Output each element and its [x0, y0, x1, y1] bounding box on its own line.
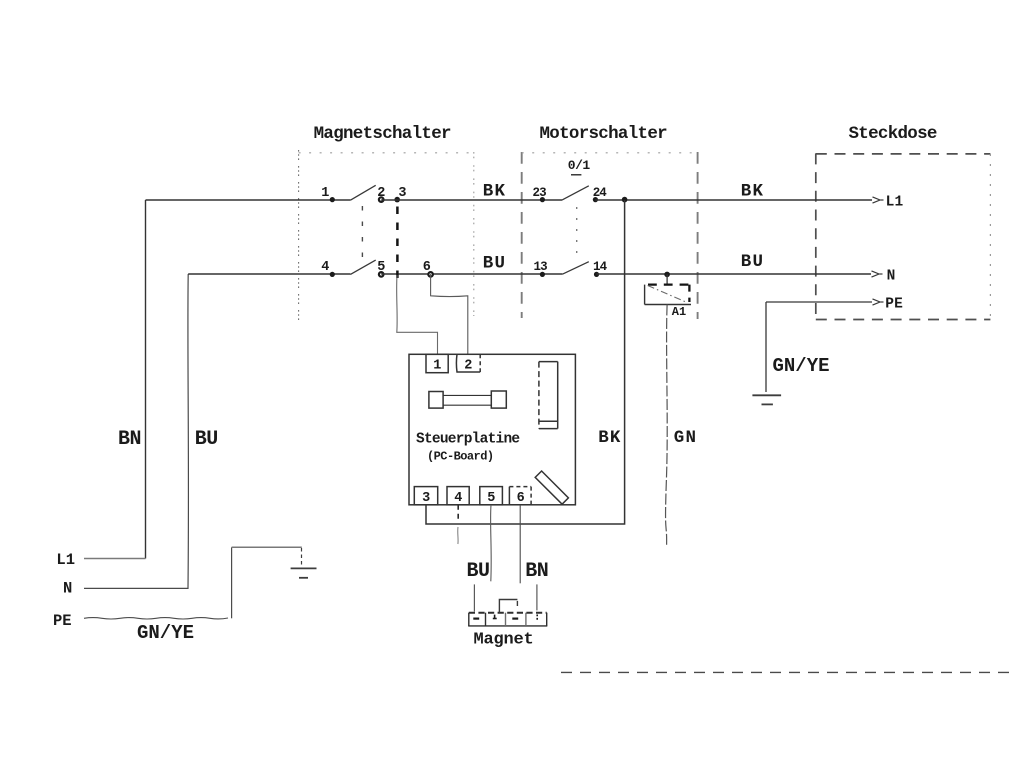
- wire BN PCB pin 6 to magnet: [519, 505, 521, 584]
- node junction 24: [622, 197, 628, 203]
- node 6: [428, 272, 433, 277]
- svg-text:Steckdose: Steckdose: [849, 124, 937, 144]
- resistor R1 vertical: [539, 362, 558, 429]
- node contact 14: [594, 272, 599, 277]
- svg-text:BN: BN: [525, 560, 548, 583]
- svg-text:(PC-Board): (PC-Board): [427, 449, 494, 463]
- ground left: [291, 548, 317, 578]
- wire node 6 to PCB pin 2: [431, 274, 468, 354]
- svg-text:Magnet: Magnet: [474, 631, 534, 650]
- wire BU between boxes: [381, 273, 562, 275]
- svg-text:2: 2: [464, 359, 472, 374]
- svg-text:1: 1: [321, 186, 329, 201]
- svg-text:GN/YE: GN/YE: [773, 355, 830, 377]
- terminal marks X1: [473, 615, 537, 620]
- svg-text:Steuerplatine: Steuerplatine: [416, 431, 519, 447]
- mechanical link S1-S2: [361, 206, 363, 266]
- switch S4 blade contacts 13-14: [562, 262, 588, 275]
- svg-text:N: N: [887, 269, 896, 285]
- enclosure Steckdose dashed box: [816, 153, 991, 319]
- svg-text:4: 4: [454, 491, 462, 506]
- fuse F1: [429, 391, 506, 408]
- wire BK top rail (Magnetschalter section): [146, 199, 351, 201]
- wire BU to socket: [597, 273, 872, 275]
- svg-text:2: 2: [377, 186, 385, 201]
- arrow to socket PE: [873, 299, 884, 305]
- svg-text:BU: BU: [467, 560, 490, 583]
- svg-text:1: 1: [433, 359, 441, 374]
- svg-text:13: 13: [534, 260, 548, 274]
- mechanical link S3-S4: [576, 207, 578, 258]
- dashed wire node 3 down: [396, 207, 399, 279]
- wire junction to relay A1: [666, 274, 668, 284]
- switch S2 blade contacts 4-5: [350, 260, 375, 274]
- svg-text:24: 24: [593, 186, 608, 200]
- pin 5 PCB: [480, 487, 503, 505]
- node contact 5: [379, 272, 384, 277]
- svg-text:PE: PE: [885, 297, 903, 313]
- svg-text:5: 5: [487, 491, 495, 506]
- node contact 24: [593, 197, 598, 202]
- svg-text:N: N: [63, 580, 72, 598]
- pin 3 PCB: [414, 487, 437, 505]
- pin 2 PCB: [456, 354, 480, 372]
- relay coil A1: [645, 285, 691, 305]
- separator dashed line bottom: [561, 671, 1017, 673]
- svg-text:4: 4: [321, 260, 329, 275]
- svg-text:6: 6: [517, 491, 525, 506]
- wire GN from relay A1 down: [666, 305, 668, 545]
- svg-text:Motorschalter: Motorschalter: [540, 124, 668, 144]
- arrow to socket L1: [873, 197, 884, 203]
- wire GN/YE right down: [765, 302, 767, 392]
- svg-text:A1: A1: [672, 305, 686, 319]
- svg-text:BN: BN: [118, 428, 141, 451]
- wire PE GN/YE to left ground: [84, 618, 228, 619]
- svg-text:BU: BU: [195, 428, 218, 451]
- wire BN vertical (L1 feed to contact 1): [145, 200, 147, 559]
- wire node 3 to PCB pin 1: [397, 275, 438, 354]
- svg-text:3: 3: [398, 186, 406, 201]
- wire PCB pin 4 dashed stub: [457, 505, 459, 521]
- pin 6 PCB: [509, 487, 531, 505]
- svg-text:14: 14: [593, 260, 608, 274]
- pin 4 PCB: [447, 487, 469, 505]
- arrow to socket N: [872, 271, 883, 277]
- svg-text:23: 23: [533, 186, 547, 200]
- svg-text:BK: BK: [483, 182, 506, 202]
- node contact 4: [330, 272, 335, 277]
- svg-text:BU: BU: [741, 252, 764, 272]
- switch S3 blade contacts 23-24: [562, 186, 588, 200]
- wire BK junction down to PCB pin 3: [426, 200, 625, 524]
- svg-text:PE: PE: [53, 612, 72, 630]
- svg-text:BK: BK: [741, 182, 764, 202]
- diode D1 diagonal: [535, 471, 568, 504]
- enclosure Magnetschalter dashed box: [299, 150, 474, 322]
- node junction A1: [664, 272, 670, 278]
- wire BU vertical (N feed to contact 4): [84, 274, 188, 588]
- wire BU rail (Magnetschalter section): [188, 273, 350, 275]
- svg-text:L1: L1: [56, 551, 75, 569]
- wire BK to socket with junction: [595, 199, 872, 201]
- connector X1 Magnet terminal strip: [468, 613, 547, 626]
- node contact 2: [379, 197, 384, 202]
- svg-text:BU: BU: [483, 254, 506, 274]
- svg-text:BK: BK: [598, 428, 621, 448]
- wire stub into magnet terminal 1: [473, 584, 475, 611]
- wire stub into magnet terminal 4: [536, 584, 538, 610]
- ground right: [752, 395, 781, 404]
- enclosure Motorschalter dashed box: [522, 152, 698, 319]
- jumper bridge on X1: [499, 600, 517, 613]
- svg-text:Magnetschalter: Magnetschalter: [314, 124, 451, 144]
- node contact 13: [540, 272, 545, 277]
- svg-text:GN/YE: GN/YE: [137, 622, 194, 644]
- svg-text:6: 6: [423, 260, 431, 275]
- wire BU PCB pin 5 to magnet: [490, 505, 493, 582]
- node contact 1: [330, 197, 335, 202]
- wire PE to socket: [766, 301, 872, 303]
- svg-text:3: 3: [422, 491, 430, 506]
- svg-text:5: 5: [377, 260, 385, 275]
- pin 1 PCB: [426, 354, 448, 372]
- svg-text:0/1: 0/1: [568, 158, 591, 173]
- PCB U1 Steuerplatine outline: [409, 354, 575, 505]
- node 3: [394, 197, 400, 203]
- node contact 23: [540, 197, 545, 202]
- wire BK between boxes: [381, 199, 562, 201]
- switch S1 blade contacts 1-2: [350, 185, 375, 200]
- svg-text:GN: GN: [674, 428, 697, 448]
- svg-text:L1: L1: [886, 195, 904, 211]
